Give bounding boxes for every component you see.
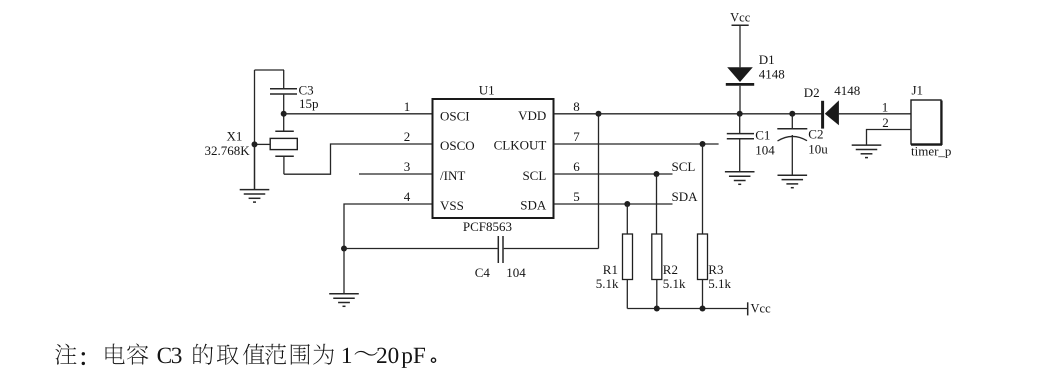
node crystal-left junction dot (252, 141, 258, 147)
capacitor C2 polarized (777, 114, 828, 175)
svg-text:X1: X1 (227, 129, 243, 144)
ground VSS (329, 249, 359, 307)
ground C2 (778, 175, 808, 188)
svg-text:2: 2 (404, 129, 411, 144)
svg-text:4148: 4148 (759, 67, 785, 82)
svg-text:1: 1 (404, 99, 411, 114)
node R2 bottom junction dot (654, 306, 660, 312)
svg-text:SCL: SCL (672, 159, 696, 174)
svg-text:D1: D1 (759, 52, 775, 67)
ground J1 (852, 145, 882, 158)
svg-text:3: 3 (404, 159, 411, 174)
svg-text:4148: 4148 (834, 83, 860, 98)
power Vcc top (730, 10, 751, 67)
svg-text:C2: C2 (808, 127, 823, 142)
svg-text:5.1k: 5.1k (663, 276, 686, 291)
resistor R2 (652, 234, 686, 309)
wire R1 top (626, 204, 628, 234)
wire resistor bottom rail (627, 308, 747, 310)
wire pin6 SCL (554, 173, 673, 175)
svg-text:104: 104 (506, 265, 526, 280)
wire pin5 SDA (554, 203, 673, 205)
wire R2 top (656, 174, 658, 234)
svg-text:C1: C1 (755, 127, 770, 142)
svg-text:8: 8 (573, 99, 580, 114)
svg-text:5.1k: 5.1k (708, 276, 731, 291)
svg-text:32.768K: 32.768K (205, 143, 251, 158)
wire pin1 OSCI (284, 113, 433, 115)
svg-text:U1: U1 (479, 83, 495, 98)
svg-text:R2: R2 (663, 262, 678, 277)
svg-text:104: 104 (755, 143, 775, 158)
svg-text:5.1k: 5.1k (596, 276, 619, 291)
note text: 注：电容 C3 的取值范围为 1～20pF。 (55, 344, 435, 368)
diode D2 (804, 83, 911, 129)
IC U1 PCF8563 (433, 83, 554, 234)
svg-text:timer_p: timer_p (911, 143, 951, 158)
svg-text:2: 2 (882, 115, 889, 130)
svg-text:7: 7 (573, 129, 580, 144)
wire pin7 CLKOUT (554, 143, 719, 145)
crystal X1 (205, 129, 298, 175)
svg-text:1: 1 (882, 99, 889, 114)
wire pin3 /INT stub (359, 173, 433, 175)
node C2 junction dot (789, 111, 795, 117)
node SCL junction dot (654, 171, 660, 177)
svg-text:CLKOUT: CLKOUT (494, 138, 547, 153)
svg-text:6: 6 (573, 159, 580, 174)
wire pin8 VDD rail (554, 113, 822, 115)
svg-text:PCF8563: PCF8563 (463, 219, 512, 234)
svg-text:OSCO: OSCO (440, 138, 475, 153)
node D1 junction dot (737, 111, 743, 117)
capacitor C3 (270, 70, 319, 131)
resistor R3 (698, 234, 732, 309)
node R3 bottom junction dot (700, 306, 706, 312)
wire top-left from left rail to C3 top (255, 69, 285, 71)
svg-text:SDA: SDA (520, 198, 547, 213)
svg-text:VSS: VSS (440, 198, 464, 213)
node OSCI junction dot (281, 111, 287, 117)
svg-text:5: 5 (573, 189, 580, 204)
wire VDD node down to C4 (598, 114, 600, 249)
svg-text:Vcc: Vcc (751, 302, 772, 316)
svg-text:Vcc: Vcc (730, 10, 751, 24)
svg-text:R3: R3 (708, 262, 723, 277)
svg-text:J1: J1 (912, 82, 924, 97)
node SDA junction dot (624, 201, 630, 207)
capacitor C4 (344, 236, 599, 280)
svg-text:D2: D2 (804, 85, 820, 100)
svg-text:4: 4 (404, 189, 411, 204)
node VSS junction dot (341, 246, 347, 252)
svg-text:SDA: SDA (672, 189, 699, 204)
wire R3 top (702, 144, 704, 234)
power Vcc bottom-right (748, 302, 771, 316)
svg-text:10u: 10u (808, 142, 828, 157)
svg-text:R1: R1 (603, 262, 618, 277)
resistor R1 (596, 234, 633, 309)
svg-text:C4: C4 (475, 265, 491, 280)
node CLKOUT junction dot (700, 141, 706, 147)
wire pin4 VSS (344, 204, 433, 249)
capacitor C1 (727, 114, 775, 172)
svg-text:SCL: SCL (522, 168, 546, 183)
wire crystal to OSCO (284, 144, 433, 174)
node VDD-C4 junction dot (596, 111, 602, 117)
wire crystal left lead (255, 143, 271, 145)
svg-text:/INT: /INT (440, 168, 465, 183)
svg-text:VDD: VDD (518, 108, 546, 123)
ground left (X1) (240, 144, 270, 202)
wire J1 pin2 to ground (867, 130, 912, 145)
connector J1 (882, 82, 952, 158)
svg-text:OSCI: OSCI (440, 109, 470, 124)
svg-text:15p: 15p (299, 96, 319, 111)
diode D1 (726, 52, 785, 114)
wire left vertical rail (254, 70, 256, 190)
ground C1 (725, 172, 755, 185)
